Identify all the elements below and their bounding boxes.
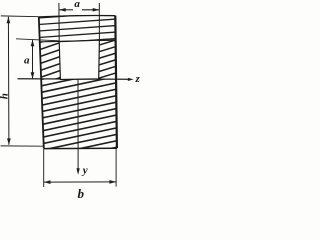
dimension line a (top, left part)	[59, 9, 73, 11]
extension line right for b	[115, 149, 117, 187]
svg-text:b: b	[78, 186, 85, 201]
arrowhead h top	[7, 17, 11, 24]
outer rectangle: right edge	[115, 16, 117, 149]
outer rectangle of cross-section: top edge	[39, 16, 116, 17]
extension line from hole right edge up to top dimension	[98, 3, 100, 40]
svg-text:a: a	[74, 0, 80, 10]
svg-text:y: y	[81, 165, 88, 177]
extension line from hole left edge up to top dimension	[58, 3, 60, 41]
arrowhead a-top right	[93, 8, 100, 12]
arrowhead b right	[109, 180, 116, 184]
arrowhead of z axis	[128, 78, 134, 81]
svg-text:h: h	[0, 93, 11, 99]
extension line bottom for h	[1, 145, 44, 147]
arrowhead b left	[44, 180, 51, 184]
dimension line b	[44, 181, 116, 183]
arrowhead of y axis	[76, 168, 79, 175]
y axis line	[77, 79, 79, 169]
internal boundary line at hole top level	[40, 40, 116, 42]
arrowhead h bottom	[7, 138, 11, 145]
z axis line with left extension at hole bottom level	[18, 78, 129, 81]
outer rectangle: left edge	[39, 17, 44, 149]
svg-text:z: z	[135, 73, 141, 85]
extension line top for h	[1, 15, 39, 18]
inner square hole a x a (white)	[59, 40, 99, 79]
dimension line h	[7, 17, 10, 145]
dimension line a (top, right part)	[82, 9, 99, 11]
outer rectangle: bottom edge	[44, 147, 117, 149]
arrowhead a-top left	[59, 8, 66, 12]
arrowhead a-inner top	[31, 40, 35, 47]
svg-text:a: a	[24, 54, 30, 66]
dimension line a (hole height)	[32, 40, 34, 79]
extension line at hole top level (inner a dimension)	[16, 39, 59, 41]
arrowhead a-inner bottom	[31, 72, 35, 79]
extension line left for b	[43, 149, 45, 187]
